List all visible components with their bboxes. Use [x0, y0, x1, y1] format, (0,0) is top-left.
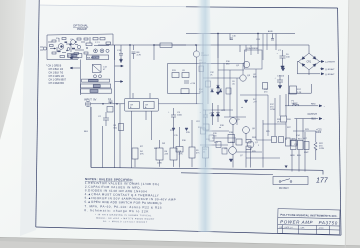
svg-text:CR1: CR1	[307, 62, 312, 64]
svg-text:(-) RIGHT: (-) RIGHT	[325, 69, 335, 71]
svg-text:4.7K: 4.7K	[137, 55, 142, 57]
svg-text:1/2W: 1/2W	[319, 148, 324, 150]
svg-text:APPR: APPR	[319, 227, 325, 230]
svg-text:+C10: +C10	[190, 83, 196, 85]
svg-text:DATE 1-4: DATE 1-4	[285, 226, 293, 229]
svg-text:INPUT 9V: INPUT 9V	[84, 98, 97, 102]
svg-text:5AMP: 5AMP	[292, 102, 298, 105]
svg-text:1/2W: 1/2W	[157, 163, 162, 165]
svg-text:CH 2 RED B/0: CH 2 RED B/0	[49, 82, 65, 85]
svg-text:BLU: BLU	[298, 139, 303, 141]
svg-text:PREAMP: PREAMP	[77, 28, 88, 31]
svg-text:Q3 A 2N3638: Q3 A 2N3638	[246, 47, 259, 50]
svg-text:WHT: WHT	[304, 152, 309, 154]
svg-text:RED: RED	[311, 103, 316, 105]
svg-text:OUTPUT: OUTPUT	[308, 114, 318, 116]
svg-text:4.7K: 4.7K	[179, 154, 184, 156]
svg-text:BLU: BLU	[312, 119, 317, 121]
svg-text:GRN: GRN	[290, 155, 295, 157]
svg-text:PA ONLY: PA ONLY	[279, 187, 289, 190]
svg-text:1000: 1000	[177, 115, 183, 117]
svg-text:1/2W: 1/2W	[270, 109, 275, 111]
svg-text:4000: 4000	[316, 132, 322, 134]
svg-text:2W: 2W	[162, 143, 165, 145]
svg-text:C7 100: C7 100	[277, 76, 285, 78]
svg-text:OPTIONAL: OPTIONAL	[73, 24, 89, 28]
svg-text:(-) RIGHT: (-) RIGHT	[325, 74, 335, 76]
svg-text:GRN: GRN	[291, 139, 296, 141]
svg-text:(+) RIGHT: (+) RIGHT	[325, 62, 336, 64]
svg-text:177: 177	[316, 178, 329, 185]
svg-text:▲: ▲	[241, 106, 243, 109]
svg-text:BLU: BLU	[297, 155, 301, 157]
svg-text:BALANCE: BALANCE	[87, 57, 97, 60]
svg-text:BLK: BLK	[84, 131, 89, 133]
